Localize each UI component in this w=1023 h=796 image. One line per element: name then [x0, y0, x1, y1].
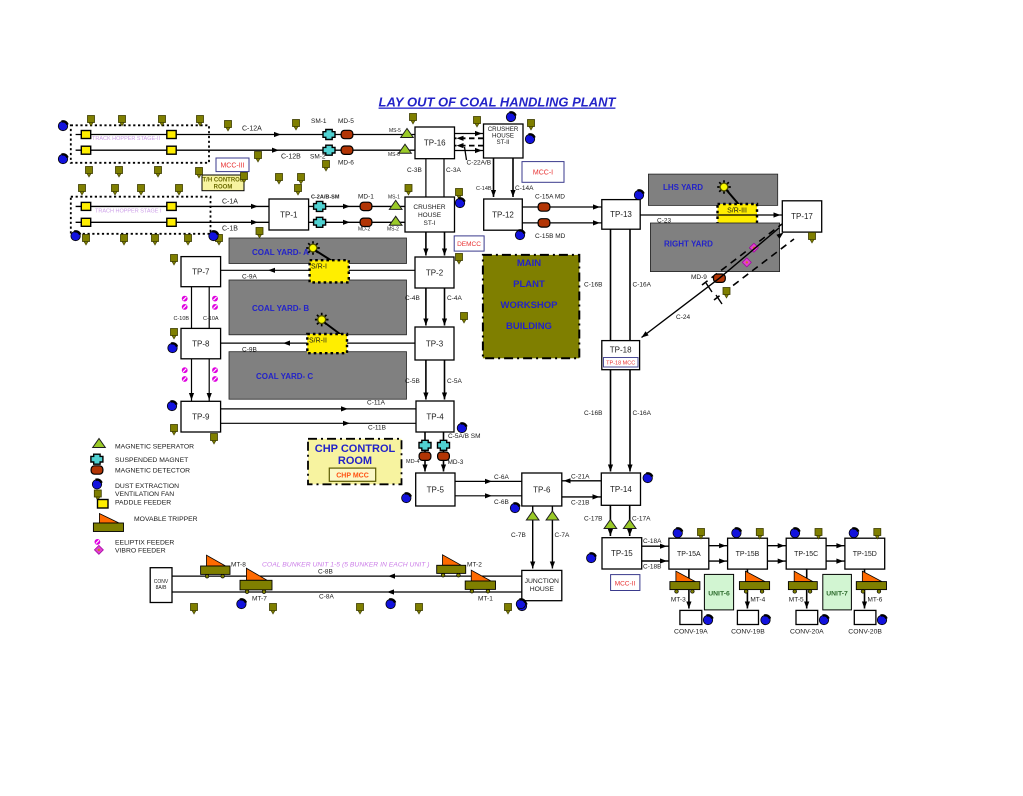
svg-text:MCC-III: MCC-III	[220, 163, 244, 170]
line CH ST-I to TP-2 left	[425, 232, 427, 256]
svg-text:MT-2: MT-2	[467, 562, 482, 569]
svg-text:C-8A: C-8A	[319, 594, 334, 601]
box TP-16	[415, 127, 455, 159]
track hopper stage-I dashed enclosure	[71, 197, 211, 234]
dust extraction 10	[168, 343, 177, 352]
conveyor C-7B line	[532, 506, 534, 569]
label MT-6	[868, 597, 883, 604]
label C-23	[657, 218, 671, 225]
svg-text:MD-9: MD-9	[691, 274, 707, 281]
svg-text:C-10A: C-10A	[203, 316, 219, 322]
svg-text:JUNCTION: JUNCTION	[525, 578, 559, 585]
svg-text:S/R-III: S/R-III	[727, 208, 747, 215]
legend dust extraction symbol	[92, 480, 101, 489]
label MD-4	[406, 459, 419, 465]
movable tripper MT-7	[240, 568, 272, 593]
ventilation fan 18	[241, 173, 248, 184]
conveyor C-15A line	[522, 206, 602, 208]
COAL YARD-C area	[229, 352, 407, 400]
movable tripper MT-4	[739, 571, 769, 593]
svg-text:CRUSHER: CRUSHER	[413, 204, 445, 211]
magnetic detector MD-2	[360, 218, 372, 226]
RIGHT YARD area	[650, 223, 779, 272]
box CONV-19A	[680, 610, 702, 624]
svg-text:C-11B: C-11B	[368, 425, 386, 432]
corridor tick marks	[706, 283, 722, 304]
dust extraction 22	[732, 528, 741, 537]
svg-text:C-1B: C-1B	[222, 226, 238, 233]
conveyor C-4A line	[444, 288, 446, 326]
label C-22A/B	[467, 160, 492, 167]
ventilation fan 19	[255, 152, 262, 163]
conveyor C-12A line	[76, 134, 415, 136]
movable tripper MT-8	[201, 555, 230, 578]
arrow C-4B into TP-3	[423, 319, 428, 326]
arrow C-18B into TP-15A	[660, 558, 667, 563]
magnetic separator MS-6	[399, 144, 412, 153]
svg-text:TP-5: TP-5	[427, 485, 445, 494]
svg-text:SUSPENDED MAGNET: SUSPENDED MAGNET	[115, 457, 188, 464]
box TP-2	[415, 257, 454, 288]
suspended magnet on C-2A	[314, 201, 326, 211]
arrow C-17A into TP-15	[627, 529, 632, 536]
S/R-II yellow box	[307, 334, 347, 353]
conveyor C-11B line	[221, 422, 416, 424]
box TP-15A	[669, 538, 709, 569]
conveyor C-9B line	[221, 342, 415, 344]
label C-15A MD	[535, 194, 565, 201]
svg-text:SM-2: SM-2	[310, 154, 326, 161]
dust extraction 9	[634, 190, 643, 199]
ventilation fan 6	[293, 120, 300, 131]
svg-text:C-16A: C-16A	[633, 282, 652, 289]
dust extraction 6	[506, 112, 515, 121]
magnetic detector MD-9	[714, 274, 726, 282]
arrow into CH ST-II bottom	[475, 148, 482, 153]
box TP-13	[602, 200, 640, 230]
dust extraction 13	[510, 503, 519, 512]
arrow on C-9B	[283, 341, 290, 346]
label C-17B	[584, 516, 602, 523]
ventilation fan 41	[270, 604, 277, 615]
arrow into TP-16 b	[457, 143, 464, 148]
legend magnetic detector symbol	[91, 466, 103, 474]
conveyor C-10A line	[208, 287, 210, 329]
box TP-3	[415, 327, 454, 360]
ventilation fan 31	[216, 235, 223, 246]
label CRUSHER HOUSE ST-I	[413, 204, 445, 211]
CHP control room	[308, 439, 402, 485]
dust extraction 5	[455, 198, 464, 207]
label MT-7	[252, 596, 267, 603]
svg-text:C-10B: C-10B	[174, 316, 190, 322]
svg-text:COAL YARD- C: COAL YARD- C	[256, 372, 313, 381]
svg-text:PADDLE FEEDER: PADDLE FEEDER	[115, 500, 171, 507]
conveyor C-15B line	[522, 222, 602, 224]
label MT-4	[750, 597, 765, 604]
label MT-8	[231, 562, 246, 569]
MCC-II box	[611, 575, 640, 591]
magnetic detector MD-6	[341, 146, 353, 154]
magnetic separator MS-2	[389, 216, 402, 225]
arrow C-5B into TP-4	[423, 393, 428, 400]
ventilation fan 10	[86, 167, 93, 178]
drop line MT-6	[864, 569, 866, 608]
label C-5A	[447, 378, 462, 385]
svg-text:MAGNETIC DETECTOR: MAGNETIC DETECTOR	[115, 468, 190, 475]
legend eeliptix feeder symbol	[95, 539, 101, 545]
svg-text:MAGNETIC SEPERATOR: MAGNETIC SEPERATOR	[115, 444, 194, 451]
arrow into TP-9 left	[189, 393, 194, 400]
label CONV-20B	[848, 629, 882, 636]
svg-text:TP-2: TP-2	[426, 268, 444, 277]
eeliptix feeder b1	[182, 367, 188, 373]
arrow C-18A into TP-15A	[660, 544, 667, 549]
box TP-5	[416, 473, 455, 506]
svg-text:C-14A: C-14A	[515, 185, 534, 192]
svg-text:TP-14: TP-14	[610, 485, 632, 494]
svg-text:C-16A: C-16A	[633, 410, 652, 417]
svg-text:TP-7: TP-7	[192, 267, 210, 276]
arrow into TP-5 left	[422, 465, 427, 472]
label MCC-I	[533, 170, 553, 177]
conveyor C-16A upper line	[629, 229, 631, 340]
arrow on C-11A	[341, 406, 348, 411]
ventilation fan 48	[874, 529, 881, 540]
magnetic detector on C-15B	[538, 219, 550, 227]
box TP-17	[782, 201, 821, 232]
arrow C-5A into TP-4	[442, 393, 447, 400]
legend movable tripper symbol	[93, 514, 123, 532]
label C-21A	[571, 474, 590, 481]
dust extraction 28	[877, 615, 886, 624]
label C-5B	[405, 378, 420, 385]
magnetic detector MD-4	[419, 452, 431, 460]
box TP-7	[181, 257, 221, 287]
box CONV-20B	[854, 610, 876, 624]
ventilation fan 25	[405, 185, 412, 196]
ventilation fan 8	[474, 117, 481, 128]
ventilation fan 21	[298, 174, 305, 185]
arrow C-17B into TP-15	[608, 529, 613, 536]
conveyor C-17A line	[629, 505, 631, 536]
svg-text:8A/B: 8A/B	[156, 585, 168, 591]
conveyor C-10B line	[191, 287, 193, 329]
dust extraction 20	[587, 553, 596, 562]
label MS-2	[387, 227, 399, 233]
svg-text:C-7A: C-7A	[555, 532, 570, 539]
ventilation fan 30	[185, 235, 192, 246]
arrow into TP-2 left	[423, 249, 428, 256]
label C-16A upper	[633, 282, 652, 289]
magnetic separator on C-7B	[526, 511, 539, 520]
svg-text:DEMCC: DEMCC	[457, 241, 481, 248]
label C-6B	[494, 499, 509, 506]
arrow C-7A into junction house	[550, 562, 555, 569]
ventilation fan 5	[225, 121, 232, 132]
svg-text:VIBRO FEEDER: VIBRO FEEDER	[115, 548, 166, 555]
svg-text:CHP CONTROL: CHP CONTROL	[315, 443, 396, 455]
svg-text:COAL BUNKER UNIT 1-5 (5 BUNKER: COAL BUNKER UNIT 1-5 (5 BUNKER IN EACH U…	[262, 562, 430, 569]
svg-text:MT-7: MT-7	[252, 596, 267, 603]
conveyor C-8A line	[172, 591, 522, 593]
ventilation fan 35	[171, 425, 178, 436]
svg-text:MS-5: MS-5	[389, 128, 401, 134]
svg-text:C-8B: C-8B	[318, 569, 333, 576]
svg-text:ROOM: ROOM	[214, 185, 233, 191]
box TP-15	[602, 538, 642, 569]
label C-14B	[476, 186, 492, 192]
svg-text:C-5A: C-5A	[447, 378, 462, 385]
eeliptix feeder a2	[212, 296, 218, 302]
svg-text:C-4A: C-4A	[447, 295, 462, 302]
arrow C-16A into TP-14	[627, 465, 632, 472]
arrow on C-12A	[274, 132, 281, 137]
box crusher house ST-II	[484, 124, 524, 158]
stacker reclaimer sun S/R-I	[306, 241, 320, 255]
svg-text:LHS YARD: LHS YARD	[663, 183, 703, 192]
conveyor C-21A line	[562, 480, 602, 482]
ventilation fan 42	[357, 604, 364, 615]
conveyor C-24 lower segment	[642, 278, 720, 337]
eeliptix feeder a1	[182, 296, 188, 302]
ventilation fan 40	[191, 604, 198, 615]
dust extraction 16	[237, 599, 246, 608]
label DEMCC	[457, 241, 481, 248]
arrow C-16B into TP-14	[608, 465, 613, 472]
svg-text:TRACH HOPPER STAGE I: TRACH HOPPER STAGE I	[95, 209, 162, 215]
svg-text:COAL YARD- A: COAL YARD- A	[252, 248, 309, 257]
label MD-1	[358, 194, 374, 201]
svg-text:C-5A/B SM: C-5A/B SM	[448, 433, 481, 440]
arrow into TP-16 a	[457, 136, 464, 141]
svg-text:C-3B: C-3B	[407, 167, 422, 174]
ventilation fan 22	[295, 185, 302, 196]
svg-text:C-14B: C-14B	[476, 186, 492, 192]
magnetic separator MS-1	[389, 200, 402, 209]
ventilation fan 9	[528, 120, 535, 131]
ventilation fan 39	[723, 288, 730, 299]
box TP-15D	[845, 538, 885, 569]
suspended magnet SM-2	[323, 145, 335, 155]
chain line top 1	[709, 545, 728, 547]
line TP-16 to CH ST-II top	[455, 133, 484, 135]
CHP MCC inner box	[329, 468, 375, 481]
magnetic detector MD-5	[341, 130, 353, 138]
arrow C-21A into TP-6	[564, 478, 571, 483]
arrow into CONV-20A	[804, 602, 809, 609]
svg-text:MD-5: MD-5	[338, 118, 354, 125]
arrow C-15A into TP-13	[593, 204, 600, 209]
arrow into CH ST-II	[475, 131, 482, 136]
label MCC-III	[220, 163, 244, 170]
TP-18 MCC inner box	[604, 358, 639, 368]
drop line MT-5	[806, 569, 808, 608]
svg-text:MCC-I: MCC-I	[533, 170, 553, 177]
label C-9A	[242, 274, 257, 281]
legend ventilation fan symbol	[94, 490, 101, 501]
magnetic separator on C-17B	[604, 520, 617, 529]
drop line MT-4	[746, 569, 748, 608]
svg-text:MD-6: MD-6	[338, 160, 354, 167]
dashed reclaim corridor line lower	[714, 239, 794, 300]
svg-text:MD-3: MD-3	[448, 459, 464, 466]
svg-text:C-15A MD: C-15A MD	[535, 194, 565, 201]
svg-text:C-18A: C-18A	[643, 538, 662, 545]
arrow C-4A into TP-3	[442, 319, 447, 326]
arrow C-23 into TP-17	[774, 212, 781, 217]
svg-text:C-16B: C-16B	[584, 282, 602, 289]
svg-text:MCC-II: MCC-II	[615, 581, 636, 588]
label MD-6	[338, 160, 354, 167]
arrow C-21B into TP-14	[593, 494, 600, 499]
svg-text:TRACK HOPPER STAGE-II: TRACK HOPPER STAGE-II	[92, 136, 161, 142]
svg-text:COAL YARD- B: COAL YARD- B	[252, 304, 309, 313]
conveyor C-5B line	[425, 360, 427, 400]
conveyor C-5A/B drop right	[443, 432, 445, 472]
arrow on C-11B	[343, 421, 350, 426]
label CONV-20A	[790, 629, 824, 636]
legend label MOVABLE TRIPPER	[134, 516, 198, 523]
arrow on C-8B	[388, 574, 395, 579]
svg-text:TP-16: TP-16	[424, 139, 446, 148]
svg-text:CHP MCC: CHP MCC	[336, 473, 369, 480]
svg-text:MOVABLE TRIPPER: MOVABLE TRIPPER	[134, 516, 198, 523]
ventilation fan 23	[323, 161, 330, 172]
conveyor C-3A line	[443, 159, 445, 197]
C-22A/B leader line	[465, 147, 467, 160]
label C-12B	[281, 154, 301, 161]
svg-text:MD-1: MD-1	[358, 194, 374, 201]
svg-text:C-3A: C-3A	[446, 167, 461, 174]
box TP-9	[181, 401, 221, 432]
label MD-9	[691, 274, 707, 281]
movable tripper MT-2	[437, 555, 466, 577]
ventilation fan 7	[410, 114, 417, 125]
svg-text:C-7B: C-7B	[511, 532, 526, 539]
dust extraction 19	[643, 473, 652, 482]
label CRUSHER HOUSE ST-II	[488, 126, 519, 133]
ventilation fan 2	[119, 116, 126, 127]
T/H control room box	[202, 175, 244, 191]
svg-text:C-9B: C-9B	[242, 347, 257, 354]
dust extraction 2	[58, 154, 67, 163]
conveyor C-16B lower line	[610, 370, 612, 472]
svg-text:C-6A: C-6A	[494, 474, 509, 481]
arrow into TP-9 right	[207, 393, 212, 400]
svg-text:MD-4: MD-4	[406, 459, 419, 465]
conveyor C-5A/B drop left	[424, 432, 426, 472]
box TP-1	[269, 199, 309, 230]
dust extraction 3	[71, 231, 80, 240]
svg-text:C-21B: C-21B	[571, 500, 589, 507]
svg-text:C-5B: C-5B	[405, 378, 420, 385]
label C-1B	[222, 226, 238, 233]
svg-text:TP-12: TP-12	[492, 210, 514, 219]
label C-5A/B SM	[448, 433, 481, 440]
svg-text:BUILDING: BUILDING	[506, 321, 552, 332]
magnetic separator MS-5	[401, 129, 414, 138]
chain line bottom 3	[826, 560, 845, 562]
svg-text:C-1A: C-1A	[222, 199, 238, 206]
label MT-3	[671, 597, 686, 604]
svg-text:TP-15A: TP-15A	[677, 551, 701, 558]
svg-text:HOUSE: HOUSE	[530, 586, 555, 593]
arrow C-14A into TP-12	[510, 190, 515, 197]
label C-1A	[222, 199, 238, 206]
conveyor C-6B line	[455, 495, 522, 497]
svg-text:UNIT-7: UNIT-7	[826, 591, 848, 598]
svg-text:CONV-19A: CONV-19A	[674, 629, 708, 636]
svg-text:TP-6: TP-6	[533, 485, 551, 494]
svg-text:MT-3: MT-3	[671, 597, 686, 604]
COAL YARD-A area	[229, 238, 407, 264]
legend label SUSPENDED MAGNET	[115, 457, 188, 464]
label C-12A	[242, 126, 262, 133]
dashed return line 2	[455, 145, 484, 147]
label C-9B	[242, 347, 257, 354]
svg-text:MT-8: MT-8	[231, 562, 246, 569]
arrow on C-12B	[272, 148, 279, 153]
arrow C-15B into TP-13	[593, 220, 600, 225]
legend vibro feeder symbol	[94, 545, 103, 554]
svg-text:ST-I: ST-I	[424, 220, 436, 227]
label C-10B	[174, 316, 190, 322]
svg-text:C-2A/B-SM: C-2A/B-SM	[311, 195, 340, 201]
label T/H CONTROL	[203, 178, 244, 184]
label MS-5	[389, 128, 401, 134]
line TP-8 to TP-9 right	[208, 359, 210, 402]
label C-10A	[203, 316, 219, 322]
track hopper stage-II dashed enclosure	[71, 125, 209, 163]
conveyor C-3B line	[425, 159, 427, 197]
COAL YARD-B area	[229, 280, 407, 335]
conveyor C-18B line	[642, 560, 669, 562]
svg-text:C-11A: C-11A	[367, 400, 386, 407]
legend paddle feeder symbol	[98, 500, 109, 509]
label CONV-19B	[731, 629, 765, 636]
conveyor C-18A line	[642, 545, 669, 547]
svg-text:TP-13: TP-13	[610, 210, 632, 219]
label TP-18	[610, 346, 632, 355]
paddle feeder squares stage-II	[81, 131, 90, 139]
suspended magnet SM-1	[323, 130, 335, 140]
label C-16B lower	[584, 410, 602, 417]
conveyor C-14B line	[493, 158, 495, 197]
ventilation fan 17	[176, 185, 183, 196]
line TP-16 to CH ST-II bottom	[455, 150, 484, 152]
sun leader to S/R-II	[325, 323, 343, 336]
box junction house	[522, 570, 562, 600]
conveyor C-2B line	[309, 221, 405, 223]
ventilation fan 15	[112, 185, 119, 196]
label CONV 8A/B	[154, 579, 169, 585]
dust extraction 18	[516, 599, 525, 608]
svg-text:ST-II: ST-II	[496, 139, 509, 146]
svg-text:MAIN: MAIN	[517, 258, 541, 269]
ventilation fan 27	[83, 235, 90, 246]
svg-text:MT-6: MT-6	[868, 597, 883, 604]
svg-text:T/H CONTROL: T/H CONTROL	[203, 178, 244, 184]
ventilation fan 13	[196, 168, 203, 179]
svg-text:CONV-19B: CONV-19B	[731, 629, 765, 636]
arrow into CONV-19B	[745, 602, 750, 609]
magnetic detector MD-1	[360, 202, 372, 210]
conveyor C-24 upper segment	[719, 228, 779, 278]
svg-text:TP-18 MCC: TP-18 MCC	[606, 361, 635, 367]
svg-text:C-17B: C-17B	[584, 516, 602, 523]
label C-6A	[494, 474, 509, 481]
